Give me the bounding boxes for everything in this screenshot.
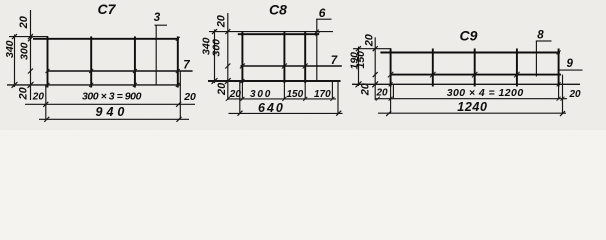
C7 tick chain-topbar (28, 36, 33, 41)
C7 tick A-340line (12, 82, 18, 88)
svg-text:С8: С8 (269, 1, 287, 17)
C8 middle longitudinal bar with right shelf for callout 7 (240, 65, 341, 67)
svg-text:20: 20 (216, 14, 228, 28)
C8 tick 640-right (336, 111, 341, 116)
svg-text:150: 150 (355, 51, 367, 69)
C9 tick 190-top (356, 46, 361, 51)
C9 tick 1240-left (386, 111, 391, 116)
svg-text:7: 7 (331, 55, 338, 67)
C7 top longitudinal bar (33, 38, 179, 40)
C9 chain dimension line (horizontal) (375, 98, 567, 100)
C9 junction tick v3 (472, 72, 478, 78)
scan noise overlay (0, 0, 606, 130)
C7 junction tick v4 (176, 69, 180, 73)
C9 overall-1240 dimension line (378, 112, 566, 114)
C8 tick chain-v2 (282, 97, 286, 101)
C8 transverse bar 2 (283, 31, 285, 83)
svg-text:20: 20 (216, 82, 228, 96)
C7 tick 900-left (43, 102, 48, 107)
C7 tick A-v2 (89, 83, 93, 87)
C9 tick chain-bottom (373, 82, 378, 87)
svg-text:3: 3 (154, 12, 161, 24)
C7 left bottom extension line x=45.8 (45, 85, 47, 120)
C9 ext right bar-end down (562, 75, 564, 114)
svg-text:7: 7 (183, 59, 190, 71)
C8 tick chain-midbar (225, 64, 230, 69)
svg-text:20: 20 (18, 15, 30, 29)
C7 callout 3 shelf (155, 24, 168, 26)
C9 bottom edge line A (352, 83, 580, 85)
C7 tick 940-left (44, 117, 49, 122)
C8 leader-6 junction tick (315, 30, 319, 34)
C8 top bar right corner tick (316, 32, 320, 36)
C7 chain dimension line 20/300/20 (vertical) (30, 10, 32, 100)
C7 left top extension line (9, 36, 48, 38)
svg-text:20: 20 (376, 88, 389, 99)
C7 tick A-v1 (46, 83, 50, 87)
svg-text:300: 300 (19, 42, 31, 60)
C9 ext v1b down (392, 84, 394, 99)
C7 transverse bar 2 (90, 36, 92, 87)
svg-text:С7: С7 (98, 1, 117, 17)
C9 transverse bar 3 (474, 49, 476, 87)
C9 ext v1 down (390, 84, 392, 113)
svg-text:20: 20 (18, 86, 30, 100)
C7 bottom edge line A (7, 84, 181, 86)
C8 top extension line (209, 31, 333, 33)
C9 tick chain-botbar (373, 72, 378, 77)
C7 overall-940 dimension line (39, 118, 189, 120)
paper background (0, 0, 606, 130)
C8 tick B-chainline (225, 78, 231, 84)
C9 tick A-v1 (389, 82, 393, 86)
C8 tick chain-v3 (303, 97, 307, 101)
C9 top longitudinal bar (380, 52, 560, 54)
C8 top longitudinal bar (238, 33, 319, 35)
C8 overall-640 dimension line (229, 112, 343, 114)
C8 transverse bar 3 (304, 31, 306, 83)
C7 tick 900-right (176, 102, 181, 107)
C7 callout 3 leader (155, 25, 157, 85)
C7 junction tick v3 (133, 69, 137, 73)
C7 right extension line x=180.3 (179, 71, 181, 120)
C8 tick 340-top (212, 29, 217, 34)
svg-text:9: 9 (567, 58, 574, 70)
C9 junction tick v1 (388, 72, 394, 78)
C9 transverse bar 1 (390, 49, 392, 87)
C8 tick chain-170end (330, 97, 334, 101)
svg-text:300 × 3 = 900: 300 × 3 = 900 (82, 91, 142, 103)
C9 tick chain-v5 (557, 97, 561, 101)
svg-text:170: 170 (314, 89, 331, 100)
svg-text:1240: 1240 (457, 100, 487, 114)
C7 junction tick v1 (46, 69, 50, 73)
svg-text:340: 340 (4, 40, 16, 58)
svg-text:20: 20 (364, 33, 376, 47)
C9 callout 9 shelf (558, 69, 583, 71)
C8 separator ext v1 (241, 81, 243, 99)
C7 tick chain-bottom (28, 82, 33, 87)
C8 separator ext v3 (304, 81, 306, 99)
C7 tick 340-top (12, 34, 17, 39)
C9 overall-190 dimension line (vertical) (358, 47, 360, 87)
C8 callout 6 shelf (316, 18, 331, 20)
svg-text:150: 150 (287, 89, 304, 100)
C9 callout 8 leader (535, 41, 537, 77)
C8 chain dimension line (vertical) (227, 13, 229, 100)
C9 transverse bar 2 (432, 49, 434, 87)
C9 junction tick v4 (514, 72, 520, 78)
C8 callout 6 leader (316, 19, 318, 81)
C8 tick B-v1 (240, 79, 244, 83)
svg-text:940: 940 (96, 105, 129, 119)
C9 bottom longitudinal bar (391, 74, 561, 76)
C7 tick A-chainline (28, 82, 34, 88)
C8 junction tick v2 (282, 64, 287, 69)
svg-text:20: 20 (229, 89, 242, 100)
C7 tick A-v3 (133, 83, 137, 87)
C9 tick A-190line (356, 81, 362, 87)
C7 transverse bar 1 (47, 36, 49, 87)
C8 tick B-340line (212, 78, 218, 84)
C7 tick chain-midbar (28, 69, 33, 74)
C8 tick chain-top (225, 29, 230, 34)
C7 tick A-v4 (176, 83, 180, 87)
C9 tick chain-top (373, 46, 378, 51)
C9 tick A-chainline (372, 81, 378, 87)
svg-text:6: 6 (319, 6, 326, 20)
C9 tick chain-v1 (389, 97, 393, 101)
C8 chain dimension line (horizontal) (228, 98, 336, 100)
svg-text:20: 20 (183, 91, 196, 103)
C8 tick chain-bottom (225, 79, 230, 84)
C9 tick 1240-right (560, 111, 565, 116)
C9 callout 8 shelf (536, 40, 552, 42)
C8 overall-340 dimension line (vertical) (214, 30, 216, 84)
C9 transverse bar 4 (516, 49, 518, 87)
C7 top bar right corner tick (176, 37, 180, 41)
C9 tick chain-20L (376, 97, 380, 101)
C8 tick chain-20 (226, 97, 230, 101)
C9 ext v5 down (558, 84, 560, 99)
C7 transverse bar 4 (177, 36, 179, 87)
C9 top bar right corner tick (557, 51, 561, 55)
C7 junction tick v2 (89, 69, 93, 73)
C8 transverse bar 1 (241, 31, 243, 83)
C9 junction tick v2 (430, 72, 436, 78)
C9 top extension line (353, 48, 391, 50)
svg-text:300: 300 (250, 89, 272, 100)
C7 tick chain-top (28, 34, 33, 39)
svg-text:20: 20 (569, 89, 582, 100)
C7 span-900 dimension line (25, 103, 195, 105)
C8 tick 640-left (238, 111, 243, 116)
C8 tick chain-v1 (240, 97, 244, 101)
C7 tick 340-bottom (12, 82, 17, 87)
C8 separator ext 170-end (331, 81, 333, 99)
svg-text:300: 300 (211, 39, 223, 57)
C8 junction tick v1 (240, 64, 245, 69)
svg-text:С9: С9 (460, 28, 478, 44)
svg-text:20: 20 (32, 91, 45, 102)
C7 bottom longitudinal bar with right shelf for callout 7 (48, 70, 193, 72)
svg-text:300 × 4 = 1200: 300 × 4 = 1200 (447, 87, 524, 99)
C7 overall-340 dimension line (vertical) (14, 35, 16, 88)
C7 transverse bar 3 (134, 36, 136, 87)
C8 right ext to overall line (337, 81, 339, 113)
C8 bottom thick line (208, 80, 341, 82)
C9 tick A-v5 (557, 82, 561, 86)
C9 tick 190-bottom (356, 82, 361, 87)
C8 separator ext v2 (283, 81, 285, 99)
C9 chain dimension line (vertical) (374, 37, 376, 100)
C9 transverse bar 5 (558, 49, 560, 87)
svg-text:8: 8 (537, 29, 544, 41)
C9 tick chain-20R (561, 97, 565, 101)
C8 junction tick v3 (303, 64, 308, 69)
C8 bar-end extension to 640 line (239, 81, 241, 113)
C7 tick 940-right (177, 117, 182, 122)
C8 tick 340-bottom (212, 79, 217, 84)
